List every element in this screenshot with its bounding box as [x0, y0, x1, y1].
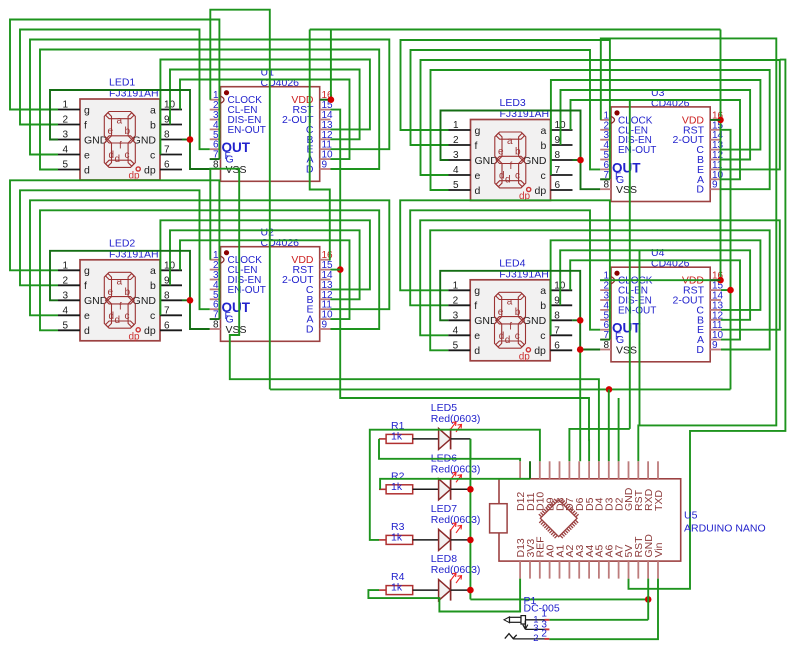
- svg-text:dp: dp: [144, 164, 156, 176]
- mcu U5 ARDUINO NANO: [490, 461, 766, 578]
- wire a net LED3-U3: [571, 100, 741, 179]
- P1 barrel plug art: [504, 616, 545, 624]
- P1 pin 3: [525, 619, 549, 634]
- wire f net LED3-U3: [411, 50, 601, 169]
- wire GND net loop LED3-U3: [441, 111, 601, 190]
- resistor R1 1k: [379, 420, 439, 444]
- wire a net LED4-U4: [570, 260, 740, 339]
- svg-text:4: 4: [62, 145, 68, 156]
- svg-text:1: 1: [62, 260, 68, 271]
- wire D2 feed: [618, 398, 620, 461]
- wire b net LED2-U2: [170, 230, 360, 299]
- wire b net LED3-U3: [561, 90, 751, 160]
- svg-text:4: 4: [453, 165, 459, 176]
- 7-segment display LED2 FJ3191AH: [58, 237, 182, 342]
- svg-text:f: f: [475, 140, 478, 152]
- svg-text:d: d: [499, 171, 505, 182]
- svg-text:dp: dp: [144, 325, 156, 337]
- svg-text:e: e: [108, 287, 114, 298]
- svg-text:7: 7: [555, 165, 561, 176]
- svg-text:4: 4: [62, 305, 68, 316]
- svg-text:g: g: [84, 104, 90, 116]
- junction GND LED4-U4: [577, 317, 584, 324]
- svg-text:g: g: [84, 265, 90, 277]
- svg-text:d: d: [109, 150, 115, 161]
- svg-text:5: 5: [62, 320, 68, 331]
- svg-text:1: 1: [453, 280, 459, 291]
- svg-text:D: D: [696, 344, 704, 356]
- svg-text:VSS: VSS: [226, 164, 247, 176]
- svg-text:6: 6: [164, 160, 170, 171]
- svg-text:VSS: VSS: [616, 344, 637, 356]
- svg-text:a: a: [117, 276, 123, 287]
- svg-text:VSS: VSS: [226, 324, 247, 336]
- wire GND4 chain to D6: [579, 350, 581, 462]
- svg-text:a: a: [507, 136, 513, 147]
- wire VDD right rail: [720, 30, 722, 281]
- wire GND net loop LED4-U4: [440, 271, 600, 350]
- svg-text:9: 9: [322, 320, 328, 331]
- svg-text:b: b: [125, 126, 131, 137]
- 7-segment display LED1 FJ3191AH: [58, 77, 182, 182]
- svg-text:e: e: [475, 170, 481, 182]
- svg-text:d: d: [505, 335, 511, 346]
- svg-text:8: 8: [164, 130, 170, 141]
- wire a3 line jog to D7: [569, 429, 629, 461]
- svg-text:g: g: [474, 285, 480, 297]
- wire a3 line down: [629, 100, 631, 429]
- P1 pin 2: [514, 629, 550, 645]
- svg-text:6: 6: [555, 180, 561, 191]
- wire P1.1 to GND column: [549, 619, 648, 621]
- junction VDD3: [717, 117, 724, 124]
- wire e net LED1-U1: [30, 40, 389, 155]
- wire e net LED3-U3: [421, 60, 780, 175]
- svg-text:D: D: [696, 184, 704, 196]
- svg-text:e: e: [84, 310, 90, 322]
- svg-text:b: b: [150, 119, 156, 131]
- svg-text:e: e: [498, 307, 504, 318]
- wire D12 LED5 cathode R1: [379, 439, 520, 461]
- svg-text:GND: GND: [523, 155, 547, 167]
- junction GND4-VSS: [577, 346, 584, 353]
- svg-text:d: d: [84, 164, 90, 176]
- svg-text:1k: 1k: [391, 430, 403, 442]
- svg-text:dp: dp: [519, 351, 531, 362]
- svg-text:5: 5: [453, 180, 459, 191]
- junction GND LED2-U2: [187, 297, 194, 304]
- wire f net LED4-U4: [410, 210, 600, 329]
- wire b net LED1-U1: [170, 70, 360, 140]
- svg-text:c: c: [125, 150, 130, 161]
- svg-text:VSS: VSS: [616, 184, 637, 196]
- wire D10 to R3: [370, 430, 540, 540]
- svg-text:EN-OUT: EN-OUT: [618, 305, 656, 316]
- svg-text:U5: U5: [684, 510, 698, 522]
- svg-text:c: c: [150, 149, 155, 161]
- svg-text:dp: dp: [129, 331, 141, 342]
- crystal: [490, 504, 508, 533]
- wire VDD drop through U1 to U2.16: [310, 30, 331, 260]
- svg-text:4: 4: [453, 325, 459, 336]
- resistor R2 1k: [379, 470, 439, 494]
- P1 switch arrow: [523, 621, 528, 630]
- 7-segment display LED3 FJ3191AH: [449, 97, 573, 202]
- svg-text:b: b: [540, 300, 546, 312]
- svg-text:3: 3: [62, 290, 68, 301]
- svg-text:d: d: [499, 331, 505, 342]
- led LED6 Red(0603): [431, 452, 481, 500]
- svg-text:dp: dp: [534, 345, 546, 357]
- svg-text:f: f: [510, 161, 513, 172]
- junction GND LED1-U1: [187, 136, 194, 143]
- wire b net LED4-U4: [560, 250, 750, 319]
- wire e net LED2-U2: [30, 200, 389, 315]
- svg-text:2: 2: [453, 135, 459, 146]
- svg-text:f: f: [119, 141, 122, 152]
- junction VDD1: [328, 96, 335, 103]
- resistor R3 1k: [379, 521, 439, 545]
- svg-text:d: d: [505, 175, 511, 186]
- svg-text:3: 3: [62, 130, 68, 141]
- counter IC U4 CD4026: [600, 247, 723, 362]
- svg-text:c: c: [125, 311, 130, 322]
- wire e net LED4-U4: [420, 220, 780, 335]
- svg-text:D: D: [306, 324, 314, 336]
- svg-text:c: c: [540, 330, 545, 342]
- svg-text:Vin: Vin: [653, 542, 665, 557]
- wire g net LED1-U1: [10, 20, 219, 160]
- svg-text:1k: 1k: [391, 531, 403, 543]
- wire RST rail right (U3.15 U4.15 to D3 row): [721, 130, 731, 290]
- wire CLK3 U3.1 to Arduino RST: [601, 38, 777, 461]
- svg-text:9: 9: [322, 160, 328, 171]
- counter IC U2 CD4026: [210, 227, 333, 342]
- junction VDD4: [717, 277, 724, 284]
- led LED7 Red(0603): [431, 503, 481, 551]
- svg-text:f: f: [474, 300, 477, 312]
- connector P1 DC-005: [524, 595, 560, 615]
- wire c net LED2-U2: [160, 220, 370, 315]
- svg-text:a: a: [150, 265, 156, 277]
- resistor R4 1k: [379, 571, 439, 595]
- svg-text:GND: GND: [523, 315, 547, 327]
- svg-text:8: 8: [554, 310, 560, 321]
- svg-text:1k: 1k: [391, 481, 403, 493]
- svg-text:EN-OUT: EN-OUT: [228, 125, 266, 136]
- svg-text:3: 3: [453, 150, 459, 161]
- svg-text:b: b: [541, 140, 547, 152]
- svg-text:d: d: [109, 311, 115, 322]
- svg-text:2: 2: [533, 633, 538, 644]
- junction cathodes: [467, 486, 474, 493]
- junction RST2: [337, 266, 344, 273]
- svg-text:TXD: TXD: [653, 490, 665, 511]
- wire f net LED2-U2: [20, 190, 210, 309]
- wire c net LED3-U3: [551, 80, 761, 175]
- junction GND-P1: [645, 596, 652, 603]
- svg-text:f: f: [84, 280, 87, 292]
- wire d net LED3-U3: [431, 70, 770, 190]
- junction GND LED3-U3: [577, 157, 584, 164]
- wire D11 to R2: [380, 479, 530, 490]
- svg-text:ARDUINO NANO: ARDUINO NANO: [684, 523, 766, 535]
- junction RST-D3: [606, 386, 613, 393]
- svg-text:g: g: [475, 125, 481, 137]
- wire g net LED2-U2: [10, 180, 219, 319]
- counter IC U3 CD4026: [600, 87, 723, 202]
- svg-text:GND: GND: [133, 295, 157, 307]
- svg-text:6: 6: [164, 320, 170, 331]
- svg-text:8: 8: [555, 150, 561, 161]
- svg-text:d: d: [474, 345, 480, 357]
- svg-text:2: 2: [453, 295, 459, 306]
- svg-text:dp: dp: [535, 185, 547, 197]
- wire VDD rail top: [310, 29, 721, 31]
- svg-text:c: c: [541, 170, 546, 182]
- svg-text:EN-OUT: EN-OUT: [228, 285, 266, 296]
- svg-text:b: b: [515, 147, 521, 158]
- wire f net LED1-U1: [20, 30, 210, 150]
- svg-text:1: 1: [453, 120, 459, 131]
- svg-text:d: d: [115, 154, 121, 165]
- wire c net LED1-U1: [160, 60, 370, 155]
- svg-text:8: 8: [164, 290, 170, 301]
- svg-text:6: 6: [554, 340, 560, 351]
- wire a net LED2-U2: [180, 240, 350, 319]
- svg-text:f: f: [509, 321, 512, 332]
- P1 spring contact: [505, 634, 517, 639]
- svg-text:2: 2: [62, 275, 68, 286]
- svg-text:1k: 1k: [391, 582, 403, 594]
- counter IC U1 CD4026: [210, 67, 333, 182]
- wire g net LED3-U3: [401, 40, 610, 179]
- svg-text:c: c: [150, 310, 155, 322]
- svg-text:c: c: [515, 171, 520, 182]
- svg-text:5: 5: [453, 340, 459, 351]
- svg-text:d: d: [84, 325, 90, 337]
- svg-text:f: f: [84, 119, 87, 131]
- svg-text:9: 9: [712, 340, 718, 351]
- svg-text:f: f: [119, 301, 122, 312]
- wire RST top rail: [639, 250, 641, 425]
- led LED5 Red(0603): [431, 402, 481, 450]
- led LED8 Red(0603): [431, 553, 481, 601]
- svg-text:7: 7: [164, 145, 170, 156]
- svg-text:1: 1: [541, 609, 547, 620]
- wire d net LED2-U2: [40, 210, 379, 330]
- P1 pin 1: [533, 609, 549, 626]
- svg-text:e: e: [108, 126, 114, 137]
- svg-text:b: b: [150, 280, 156, 292]
- 7-segment display LED4 FJ3191AH: [448, 257, 572, 362]
- wire c net LED4-U4: [551, 240, 761, 335]
- svg-text:7: 7: [554, 325, 560, 336]
- svg-text:c: c: [515, 331, 520, 342]
- wire right edge rail to 5V: [629, 60, 786, 589]
- wire RST rail left (U1.15 U2.15 to D5): [331, 110, 590, 462]
- svg-text:d: d: [115, 315, 121, 326]
- svg-text:a: a: [507, 296, 513, 307]
- wire a net LED1-U1: [180, 80, 350, 160]
- svg-text:d: d: [475, 185, 481, 197]
- junction RST U4.15: [727, 287, 734, 294]
- svg-text:e: e: [474, 330, 480, 342]
- wire CLK1 U1.1 to D3 bus: [210, 10, 269, 390]
- svg-text:2: 2: [62, 115, 68, 126]
- svg-text:3: 3: [453, 310, 459, 321]
- svg-text:7: 7: [164, 305, 170, 316]
- mcu chip art: [539, 499, 579, 538]
- svg-text:9: 9: [712, 180, 718, 191]
- wire GND net loop LED1-U1: [50, 90, 210, 169]
- svg-text:5: 5: [62, 160, 68, 171]
- svg-text:GND: GND: [133, 134, 157, 146]
- wire g net LED4-U4: [400, 200, 610, 339]
- svg-text:1: 1: [62, 100, 68, 111]
- wire D13 to R4: [368, 579, 520, 612]
- svg-text:EN-OUT: EN-OUT: [618, 145, 656, 156]
- svg-text:8: 8: [603, 180, 609, 191]
- svg-text:e: e: [498, 147, 504, 158]
- svg-text:b: b: [125, 287, 131, 298]
- wire P1.2 to Vin: [549, 579, 658, 640]
- wire VDD U1.16: [320, 99, 331, 101]
- wire GND net loop LED2-U2: [50, 251, 210, 329]
- wire d net LED1-U1: [40, 50, 379, 170]
- svg-text:b: b: [515, 307, 521, 318]
- wire cathode rail to GND: [469, 439, 471, 600]
- wire d net LED4-U4: [430, 230, 770, 350]
- wire U4.1 CLOCK tie to VDD through box: [600, 279, 721, 281]
- svg-text:8: 8: [213, 320, 219, 331]
- svg-text:a: a: [541, 125, 547, 137]
- wire CLK2 U2.1 to D4: [210, 169, 599, 462]
- svg-text:2: 2: [541, 629, 547, 640]
- svg-text:a: a: [117, 116, 123, 127]
- svg-text:e: e: [84, 149, 90, 161]
- svg-text:8: 8: [603, 340, 609, 351]
- svg-text:a: a: [540, 285, 546, 297]
- svg-text:a: a: [150, 104, 156, 116]
